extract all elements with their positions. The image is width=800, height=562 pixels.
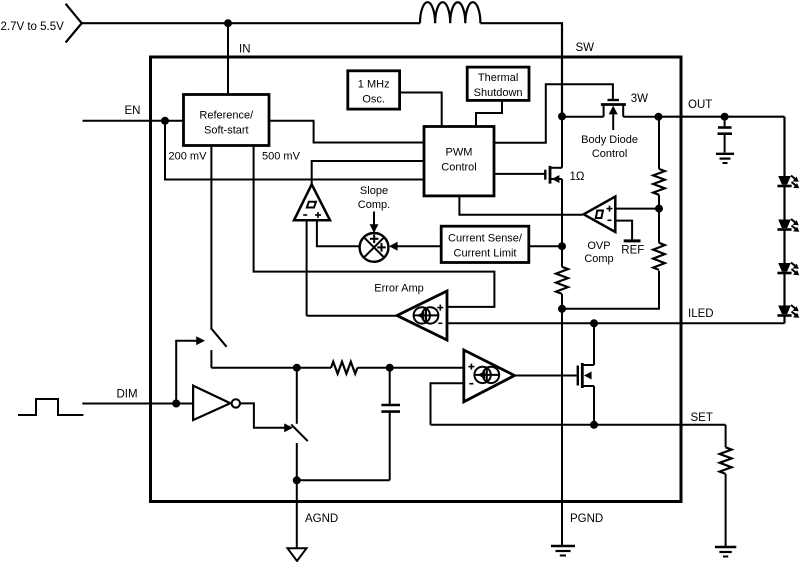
block Reference/Soft-start [184, 95, 270, 146]
svg-text:Comp: Comp [584, 253, 613, 265]
wire SW to PMOS source [562, 116, 604, 118]
wire filter cap bottom to AGND [297, 479, 390, 481]
wire EN down and right to PWM control [165, 121, 424, 180]
node IN junction dot [224, 19, 232, 27]
node SW junction dot [558, 112, 566, 120]
wire ILED line from error amp minus to LED string [447, 322, 785, 324]
supply input chevron 2.7V to 5.5V [66, 4, 82, 43]
node OUT inner junction dot [655, 113, 663, 121]
node AGND junction dot [293, 476, 301, 484]
label DIM [117, 389, 138, 401]
svg-text:SW: SW [576, 42, 595, 54]
wire inverter output to switch S2 arrow [240, 403, 293, 432]
resistor R4 filter [331, 362, 357, 374]
svg-text:Comp.: Comp. [358, 199, 390, 211]
wire RC filter line [211, 367, 331, 369]
wire current sense to summing node with arrow [389, 242, 441, 251]
block 1 MHz Osc. [348, 71, 400, 109]
node RC node 1 dot [293, 364, 301, 372]
wire SW vertical through 1-ohm NMOS to sense resistor [561, 116, 563, 265]
svg-text:500 mV: 500 mV [262, 151, 301, 163]
comparator OVP Comp [584, 197, 616, 233]
block PWM Control [424, 127, 494, 196]
switch S2 [291, 368, 308, 481]
wire AGND pin [296, 480, 298, 548]
wire OVP minus input to REF [615, 221, 632, 240]
terminal REF [624, 239, 641, 242]
wire OUT pin line [659, 116, 785, 118]
wire current sense right to sense node [529, 245, 562, 247]
wire SET line [431, 424, 726, 426]
svg-text:Control: Control [592, 148, 627, 160]
wire OVP plus input from divider tap [615, 208, 659, 210]
wire DIM up to switch S1 arrow [176, 336, 205, 403]
svg-text:Osc.: Osc. [362, 94, 385, 106]
inductor L1 [420, 2, 480, 23]
svg-text:Shutdown: Shutdown [474, 87, 523, 99]
wire IN pin [227, 23, 229, 94]
LED string D2 [777, 219, 799, 232]
node EN junction dot [161, 117, 169, 125]
label EN [125, 105, 141, 117]
op-amp dimming transconductance amp [464, 350, 515, 402]
svg-text:Current Sense/: Current Sense/ [448, 233, 523, 245]
svg-text:2.7V to 5.5V: 2.7V to 5.5V [1, 21, 65, 33]
ground PGND [551, 546, 575, 556]
wire PGND vertical [561, 309, 563, 546]
svg-text:DIM: DIM [117, 389, 138, 401]
wire PMOS drain to OUT [623, 116, 658, 118]
svg-text:OUT: OUT [688, 99, 712, 111]
label OVP Comp [584, 240, 613, 265]
block Current Sense / Current Limit [441, 226, 529, 262]
label IN [239, 44, 251, 56]
svg-text:ILED: ILED [688, 308, 714, 320]
label PGND [570, 513, 603, 525]
label REF [621, 245, 644, 257]
wire thermal shutdown to PWM control [476, 100, 502, 126]
node divider bottom dot [558, 305, 566, 313]
ground output cap [716, 154, 734, 163]
wire LED string segment [783, 186, 785, 220]
label SET [691, 412, 713, 424]
transistor Q1 1-ohm NMOS [545, 166, 562, 184]
svg-text:Reference/: Reference/ [199, 110, 254, 122]
wire filter resistor to dim amp plus input [357, 367, 463, 369]
svg-text:1 MHz: 1 MHz [358, 79, 390, 91]
label SW [576, 42, 595, 54]
label 200 mV [169, 151, 208, 163]
wire EN pin [83, 120, 184, 122]
label 2.7V to 5.5V [1, 21, 65, 33]
label OUT [688, 99, 712, 111]
wire dim amp minus feedback to SET [431, 383, 464, 425]
svg-text:EN: EN [125, 105, 141, 117]
switch S1 [211, 328, 227, 368]
svg-text:1Ω: 1Ω [570, 171, 585, 183]
capacitor C1 output [718, 117, 733, 153]
IC boundary box [151, 57, 682, 502]
wire dim amp output to NMOS gate [515, 375, 578, 377]
wire PWM comp plus input from summing node [317, 220, 360, 246]
block Thermal Shutdown [467, 67, 529, 100]
pulse waveform symbol [18, 399, 83, 415]
comparator PWM comp with hysteresis [294, 184, 330, 220]
node RC node 2 dot [386, 364, 394, 372]
label 3W [631, 93, 648, 105]
svg-text:Control: Control [441, 162, 476, 174]
label Body Diode Control [581, 134, 638, 160]
label 500 mV [262, 151, 301, 163]
transistor Q2 3W body-diode PMOS [601, 100, 626, 130]
svg-text:REF: REF [621, 245, 644, 257]
svg-text:Current Limit: Current Limit [454, 248, 517, 260]
capacitor C2 filter [381, 368, 400, 481]
resistor R5 SET [720, 425, 732, 547]
svg-text:200 mV: 200 mV [169, 151, 208, 163]
LED string D4 [777, 305, 799, 318]
wire PWM control bottom to OVP comp output [459, 196, 582, 215]
wire LED string cathode to ILED [783, 316, 785, 324]
wire PWM control to 1-ohm NMOS gate [494, 173, 545, 175]
transistor Q3 dimming NMOS [578, 323, 594, 425]
label AGND [305, 513, 338, 525]
wire PWM comp minus input down to error amp output [306, 220, 308, 315]
inverter U1 [193, 386, 240, 421]
wire LED string segment [783, 273, 785, 306]
label Error Amp [374, 283, 424, 295]
node SET NMOS source dot [590, 421, 598, 429]
svg-text:IN: IN [239, 44, 251, 56]
svg-text:Body Diode: Body Diode [581, 134, 638, 146]
resistor R3 current sense [556, 246, 568, 309]
ground SET resistor [715, 547, 736, 557]
wire slope comp arrow into summing node [370, 212, 379, 234]
wire 500 mV output down right to error amp + input [254, 146, 495, 307]
wire supply top rail left [82, 22, 420, 24]
wire error amp output to PWM comp minus [307, 315, 397, 317]
svg-text:AGND: AGND [305, 513, 338, 525]
svg-text:OVP: OVP [587, 240, 610, 252]
node ILED NMOS drain dot [590, 319, 598, 327]
wire PWM comp output up to PWM control [312, 161, 424, 184]
node output cap junction dot [721, 113, 729, 121]
LED string D1 [777, 176, 799, 189]
node DIM junction dot [172, 400, 180, 408]
svg-text:Error Amp: Error Amp [374, 283, 424, 295]
node divider tap dot [655, 205, 663, 213]
wire LED string anode [783, 117, 785, 176]
svg-text:Slope: Slope [360, 185, 388, 197]
wire LED string segment [783, 230, 785, 264]
resistor R2 OVP divider bottom [562, 209, 665, 309]
label ILED [688, 308, 714, 320]
resistor R1 OVP divider top [653, 117, 665, 209]
svg-text:PGND: PGND [570, 513, 603, 525]
svg-text:Thermal: Thermal [478, 72, 518, 84]
wire 200 mV output down to switch S1 [210, 146, 212, 329]
LED string D3 [777, 263, 799, 276]
svg-text:3W: 3W [631, 93, 648, 105]
wire oscillator to PWM control [400, 93, 442, 127]
node sense junction dot [558, 242, 566, 250]
wire DIM pin [82, 403, 193, 405]
wire supply top rail right to SW [480, 23, 562, 116]
summing junction [360, 233, 389, 262]
ground AGND arrow [288, 548, 307, 561]
svg-text:Soft-start: Soft-start [204, 125, 249, 137]
svg-text:PWM: PWM [446, 147, 473, 159]
label Slope Comp. [358, 185, 390, 211]
svg-text:SET: SET [691, 412, 713, 424]
wire reference right output to PWM control [269, 121, 424, 143]
wire PWM control to body-diode PMOS gate [494, 84, 613, 143]
op-amp error amp [397, 291, 447, 340]
label 1-ohm [570, 171, 585, 183]
